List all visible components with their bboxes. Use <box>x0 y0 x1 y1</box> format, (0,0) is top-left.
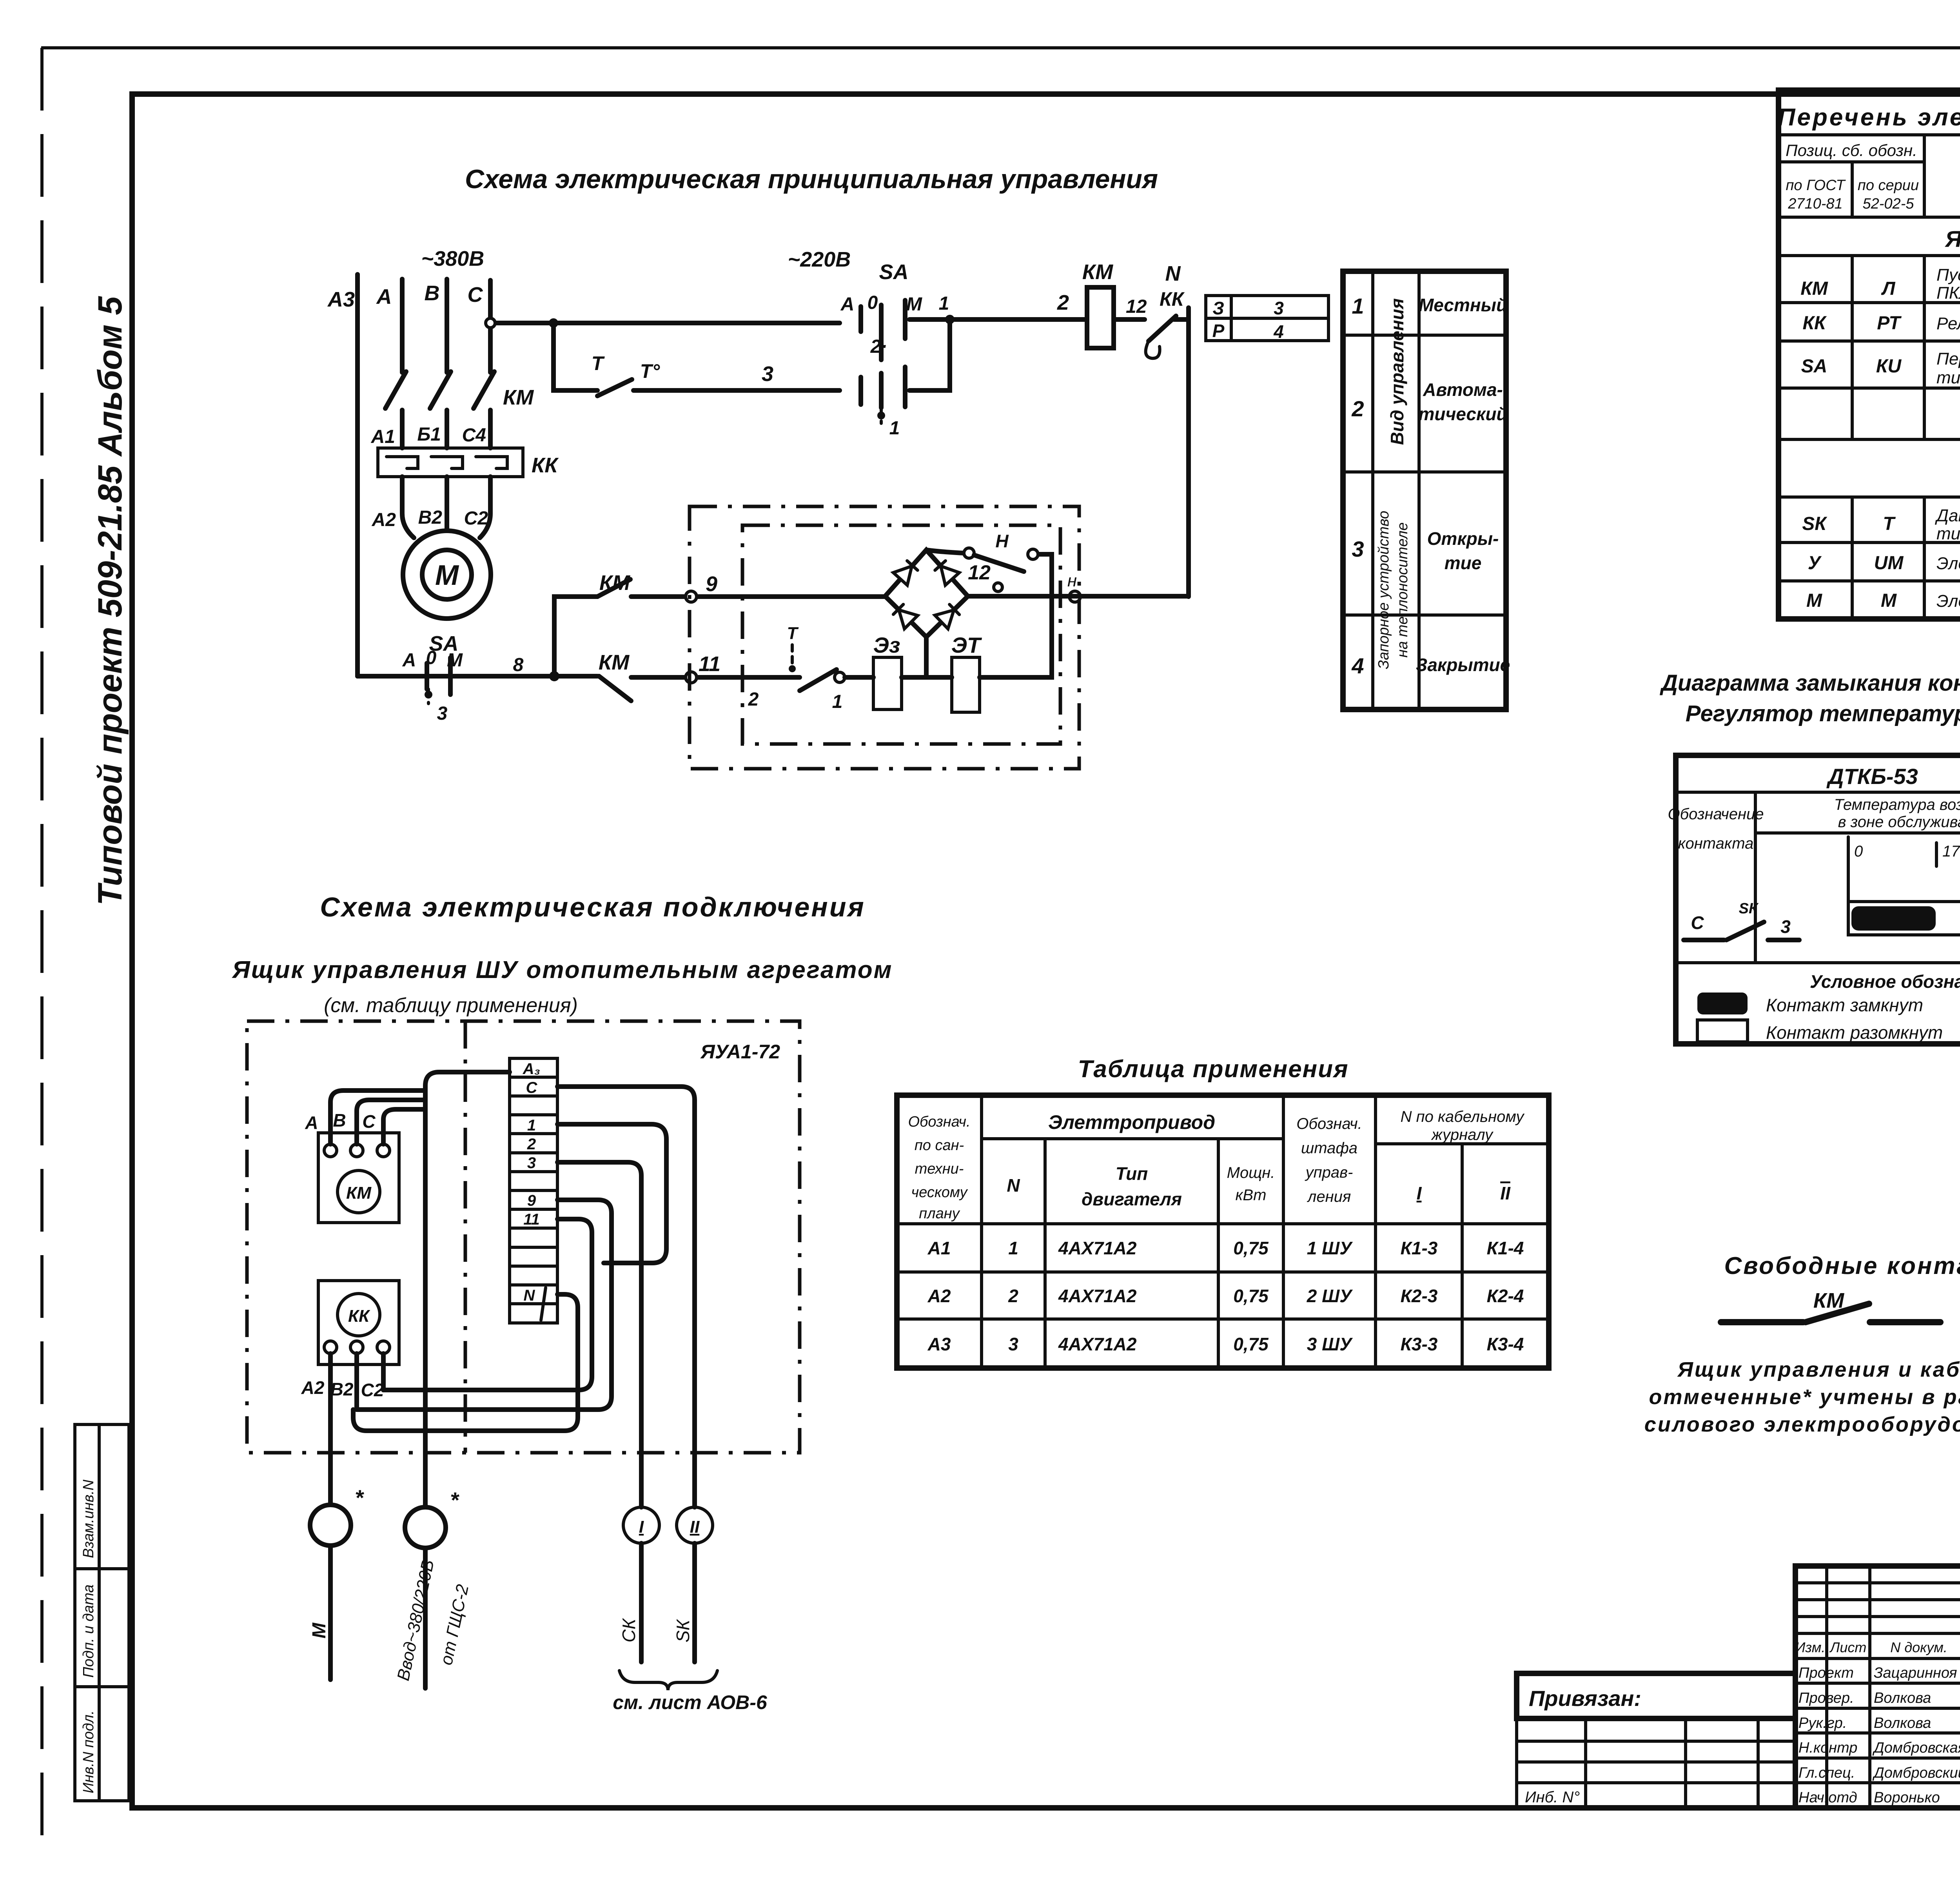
svg-text:тический: тический <box>1418 404 1507 424</box>
SA upper ticks row1 <box>858 307 863 332</box>
trunk wire <box>425 1072 510 1507</box>
svg-text:Инв.N подл.: Инв.N подл. <box>80 1710 97 1793</box>
svg-text:Воронько: Воронько <box>1874 1789 1940 1806</box>
wire bridge top to contact 12 <box>926 550 964 553</box>
svg-text:Датчик камерный биметаллически: Датчик камерный биметаллический <box>1935 506 1960 525</box>
wire phase A <box>400 279 405 448</box>
svg-text:РТ: РТ <box>1877 313 1902 334</box>
svg-text:SК: SК <box>1739 900 1759 917</box>
svg-text:4АХ71А2: 4АХ71А2 <box>1058 1286 1137 1306</box>
svg-text:11: 11 <box>523 1211 540 1228</box>
svg-text:КМ: КМ <box>346 1183 372 1203</box>
junction dot <box>549 671 559 681</box>
svg-text:Типовой проект 509-21.85 Альбо: Типовой проект 509-21.85 Альбом 5 <box>91 296 129 905</box>
svg-text:на теплоносителе: на теплоносителе <box>1394 522 1411 657</box>
svg-text:Обознач.: Обознач. <box>908 1114 970 1130</box>
svg-text:КМ: КМ <box>1082 260 1113 284</box>
svg-text:Тип: Тип <box>1116 1163 1148 1184</box>
svg-text:1: 1 <box>1352 294 1364 318</box>
svg-text:А: А <box>840 294 855 315</box>
enclosure partition <box>464 1021 467 1453</box>
svg-text:3: 3 <box>762 362 773 386</box>
svg-text:2·: 2· <box>870 336 887 357</box>
svg-text:В: В <box>333 1110 346 1130</box>
svg-text:SА: SА <box>879 260 908 284</box>
section header u mekhanizma <box>1779 495 1960 499</box>
svg-text:ческому: ческому <box>911 1184 968 1201</box>
svg-text:N по кабельному: N по кабельному <box>1401 1108 1525 1125</box>
wire to EZ <box>845 675 873 680</box>
svg-text:Обознач.: Обознач. <box>1296 1115 1362 1132</box>
svg-text:Рук.гр.: Рук.гр. <box>1798 1715 1847 1731</box>
svg-text:КМ: КМ <box>1813 1289 1844 1312</box>
element list title <box>1779 133 1960 136</box>
svg-text:Ящик управления и кабели,: Ящик управления и кабели, <box>1677 1358 1960 1381</box>
wire phase C <box>488 280 493 448</box>
svg-text:Взам.инв.N: Взам.инв.N <box>80 1479 97 1558</box>
svg-text:управ-: управ- <box>1305 1164 1353 1181</box>
svg-text:0,75: 0,75 <box>1233 1334 1269 1354</box>
svg-text:3: 3 <box>1274 298 1284 318</box>
svg-text:М: М <box>447 650 463 671</box>
svg-text:Ввод~380/220В: Ввод~380/220В <box>394 1558 438 1683</box>
svg-text:0: 0 <box>867 292 878 313</box>
svg-text:журналу: журналу <box>1431 1126 1494 1143</box>
svg-text:SА: SА <box>1801 356 1828 377</box>
svg-text:Домбровский: Домбровский <box>1872 1765 1960 1781</box>
svg-text:силового электрооборудования.: силового электрооборудования. <box>1644 1413 1960 1436</box>
svg-text:Местный: Местный <box>1419 295 1507 315</box>
svg-text:Изм.: Изм. <box>1795 1639 1826 1655</box>
svg-text:Привязан:: Привязан: <box>1529 1686 1641 1711</box>
riser wire B <box>357 1100 425 1144</box>
wire row N loop <box>353 1294 578 1431</box>
svg-text:А: А <box>305 1112 318 1133</box>
svg-text:UМ: UМ <box>1874 553 1904 573</box>
contactor KM main contact phase A <box>385 372 406 408</box>
contact state band open <box>1848 902 1960 935</box>
svg-text:Подп. и дата: Подп. и дата <box>80 1584 97 1678</box>
node H on enclosure edge <box>1069 591 1080 602</box>
svg-text:КU: КU <box>1876 356 1902 377</box>
svg-text:1: 1 <box>939 293 949 314</box>
svg-text:КМ: КМ <box>599 571 630 595</box>
thermal relay KK break contact <box>1114 317 1145 322</box>
svg-text:0,75: 0,75 <box>1233 1286 1269 1306</box>
svg-text:12: 12 <box>968 561 991 584</box>
svg-text:отмеченные* учтены в разделе: отмеченные* учтены в разделе <box>1649 1385 1960 1409</box>
bridge diode 2 <box>933 559 959 585</box>
body grid <box>1779 256 1960 439</box>
svg-text:Мощн.: Мощн. <box>1227 1164 1275 1181</box>
wire phase B <box>445 279 449 448</box>
temperature scale <box>1848 837 1960 935</box>
svg-text:3 ШУ: 3 ШУ <box>1307 1334 1353 1354</box>
svg-text:У: У <box>1808 553 1822 573</box>
wire KK to motor A <box>402 477 414 538</box>
wire row 9 to KK B2 <box>357 1200 612 1410</box>
svg-text:N докум.: N докум. <box>1890 1639 1947 1655</box>
svg-text:Т: Т <box>1883 514 1896 534</box>
solenoid EZ <box>873 657 902 709</box>
svg-text:Нач.отд: Нач.отд <box>1798 1789 1857 1806</box>
svg-text:А1: А1 <box>927 1238 951 1258</box>
svg-text:З: З <box>1212 298 1224 318</box>
svg-text:Регулятор температуры SК: Регулятор температуры SК <box>1686 701 1960 726</box>
svg-text:Л: Л <box>1881 278 1896 299</box>
svg-text:Волкова: Волкова <box>1874 1690 1931 1706</box>
wire KK C2 riser <box>381 1354 386 1390</box>
svg-text:Диаграмма замыкания контактов: Диаграмма замыкания контактов <box>1659 670 1960 696</box>
svg-text:Р: Р <box>1212 321 1225 341</box>
svg-text:Н.контр: Н.контр <box>1798 1740 1857 1756</box>
svg-text:Т: Т <box>787 624 799 643</box>
svg-text:(см. таблицу применения): (см. таблицу применения) <box>324 994 578 1017</box>
svg-text:К2-3: К2-3 <box>1401 1286 1438 1306</box>
svg-text:9: 9 <box>706 572 717 596</box>
wire branch 9 <box>631 594 885 599</box>
svg-text:2: 2 <box>1057 291 1069 314</box>
svg-text:SК: SК <box>1802 514 1828 534</box>
privyazan box <box>1517 1673 1795 1718</box>
svg-text:4АХ71А2: 4АХ71А2 <box>1058 1334 1137 1354</box>
svg-text:Т°: Т° <box>640 360 661 382</box>
application table frame <box>897 1095 1549 1368</box>
contactor KM main contact phase B <box>430 372 451 408</box>
svg-text:двигателя: двигателя <box>1082 1189 1182 1209</box>
wire row C to circle II <box>557 1087 695 1507</box>
svg-text:II: II <box>690 1517 700 1537</box>
svg-text:КМ: КМ <box>503 386 534 409</box>
svg-text:М: М <box>435 560 459 591</box>
svg-text:Электромагнитный привод типа Э: Электромагнитный привод типа ЭВ-3М <box>1936 554 1960 573</box>
margin stamp: Взам. инв. N <box>75 1424 129 1569</box>
svg-text:*: * <box>450 1488 459 1512</box>
svg-text:8: 8 <box>513 655 524 675</box>
svg-text:~220В: ~220В <box>788 248 851 271</box>
element list table frame <box>1779 90 1960 619</box>
svg-text:0: 0 <box>1854 843 1863 860</box>
svg-text:1: 1 <box>832 691 843 712</box>
svg-text:N: N <box>1165 262 1181 285</box>
svg-text:КК: КК <box>532 454 559 477</box>
svg-text:штафа: штафа <box>1301 1140 1357 1157</box>
svg-text:см. лист АОВ-6: см. лист АОВ-6 <box>613 1691 768 1713</box>
riser wire A <box>330 1091 425 1144</box>
svg-text:Ящик управления ШУ отопительны: Ящик управления ШУ отопительным агрегато… <box>232 956 893 983</box>
svg-text:2: 2 <box>1351 396 1364 421</box>
wire ET right and riser <box>980 554 1052 677</box>
svg-text:*: * <box>355 1485 364 1510</box>
svg-text:1: 1 <box>1008 1238 1018 1258</box>
junction T branch <box>549 318 558 328</box>
svg-text:Условное обозначение: Условное обозначение <box>1810 971 1960 992</box>
svg-text:К2-4: К2-4 <box>1487 1286 1524 1306</box>
svg-text:в зоне обслуживания: в зоне обслуживания <box>1838 813 1960 831</box>
terminal strip <box>510 1058 557 1323</box>
riser wire C <box>383 1109 425 1144</box>
bridge bottom lead <box>924 637 929 677</box>
svg-text:А3: А3 <box>927 1334 951 1354</box>
SA upper ticks row2 <box>858 377 863 405</box>
svg-text:N: N <box>524 1287 535 1304</box>
KK terminals <box>324 1341 337 1354</box>
cable circle II <box>677 1507 713 1543</box>
section header yashchik <box>1779 254 1960 257</box>
privyazan grid <box>1517 1718 1795 1808</box>
wire 9 to N line <box>968 594 1189 599</box>
thermal relay KK device box <box>318 1281 399 1365</box>
svg-text:К3-3: К3-3 <box>1401 1334 1438 1354</box>
svg-text:0: 0 <box>426 648 437 668</box>
svg-text:Контакт замкнут: Контакт замкнут <box>1766 995 1923 1015</box>
svg-text:по сан-: по сан- <box>915 1137 964 1154</box>
table 3-P small <box>1206 296 1328 342</box>
svg-text:2710-81: 2710-81 <box>1788 196 1842 212</box>
SA lower tick A-0 <box>425 663 429 689</box>
cable circle vvod <box>405 1507 446 1548</box>
svg-text:кВт: кВт <box>1236 1187 1267 1204</box>
svg-text:~380В: ~380В <box>421 247 485 270</box>
svg-text:Перечень элементов принципиаль: Перечень элементов принципиальной схемы … <box>1778 104 1960 131</box>
svg-text:Провер.: Провер. <box>1798 1690 1854 1706</box>
svg-text:А: А <box>376 285 392 308</box>
svg-text:А1: А1 <box>371 426 395 447</box>
svg-text:11: 11 <box>699 652 720 676</box>
left grid horizontals <box>1795 1583 1960 1783</box>
svg-text:С4: С4 <box>462 425 486 446</box>
title block frame <box>1795 1566 1960 1808</box>
svg-text:Температура воздуха: Температура воздуха <box>1834 796 1960 813</box>
contactor KM aux contact (branch 11) <box>599 676 631 701</box>
svg-text:Обозначение: Обозначение <box>1668 806 1764 823</box>
junction on phase C <box>486 318 495 328</box>
motor M outer circle <box>403 531 491 619</box>
bridge diode 4 <box>935 603 961 629</box>
svg-text:Волкова: Волкова <box>1874 1715 1931 1731</box>
svg-text:2: 2 <box>748 689 759 710</box>
svg-text:4АХ71А2: 4АХ71А2 <box>1058 1238 1137 1258</box>
solenoid ET <box>952 657 980 712</box>
header grid <box>1779 135 1960 217</box>
svg-text:Автома-: Автома- <box>1423 379 1503 400</box>
svg-text:Пускатель магнитный типа ПМЛ-1: Пускатель магнитный типа ПМЛ-1100+ <box>1936 265 1960 285</box>
svg-text:Инб. N°: Инб. N° <box>1525 1789 1580 1806</box>
svg-text:Ящик упробления ШУ: Ящик упробления ШУ <box>1944 227 1960 252</box>
wire bottom branch 11 left <box>358 674 597 679</box>
inner dash-dot enclosure <box>742 525 1060 744</box>
svg-text:Контакт разомкнут: Контакт разомкнут <box>1766 1022 1943 1043</box>
svg-text:Элеттропривод: Элеттропривод <box>1048 1111 1215 1133</box>
svg-text:А: А <box>402 650 416 671</box>
svg-text:SК: SК <box>673 1619 693 1642</box>
cable circle I <box>623 1507 659 1543</box>
wire row 3 to circle I <box>557 1162 641 1507</box>
node 11 <box>686 672 697 683</box>
svg-text:КК: КК <box>348 1306 370 1326</box>
SA lower tick 0-M <box>448 658 453 695</box>
wire SA to KM coil <box>909 317 1087 322</box>
svg-text:М: М <box>1806 590 1822 611</box>
wire branch 3 <box>633 388 840 393</box>
contactor KM device box <box>318 1133 399 1223</box>
rectifier bridge <box>885 550 968 637</box>
svg-text:КК: КК <box>1802 313 1827 334</box>
svg-text:С2: С2 <box>464 508 488 529</box>
DTKB table frame <box>1676 755 1960 1044</box>
wire N vertical <box>1186 308 1191 597</box>
KK heater element A <box>387 457 418 468</box>
svg-text:типа УП5311-С225, 2 секции: типа УП5311-С225, 2 секции <box>1936 368 1960 387</box>
svg-text:В: В <box>425 281 440 305</box>
svg-text:К1-4: К1-4 <box>1487 1238 1524 1258</box>
margin stamp: Подп. и дата <box>75 1569 129 1687</box>
svg-text:2: 2 <box>1008 1286 1018 1306</box>
svg-text:Схема электрическая принципиал: Схема электрическая принципиальная управ… <box>465 164 1158 194</box>
svg-text:1 ШУ: 1 ШУ <box>1307 1238 1353 1258</box>
svg-text:М: М <box>309 1622 330 1639</box>
body grid 2 <box>1779 497 1960 619</box>
wire row 1 loop <box>557 1124 666 1263</box>
svg-text:9: 9 <box>527 1192 536 1209</box>
svg-text:N: N <box>1007 1175 1020 1196</box>
bridge diode 1 <box>893 559 919 585</box>
svg-text:0,75: 0,75 <box>1233 1238 1269 1258</box>
wire KK to motor B <box>445 477 449 531</box>
KM terminals <box>324 1144 337 1157</box>
svg-text:17°С: 17°С <box>1942 843 1960 860</box>
left grid verticals <box>1827 1566 1960 1808</box>
wire KK to motor C <box>480 477 490 538</box>
svg-text:КМ: КМ <box>599 651 630 674</box>
svg-text:А2: А2 <box>301 1377 325 1398</box>
svg-text:Электродвигатель, ~380В: Электродвигатель, ~380В <box>1936 592 1960 611</box>
svg-text:С2: С2 <box>361 1380 384 1400</box>
control mode table frame <box>1343 271 1506 709</box>
border outer left <box>40 48 44 1838</box>
svg-text:М: М <box>906 294 922 315</box>
svg-text:1: 1 <box>889 418 900 439</box>
svg-text:Гл.спец.: Гл.спец. <box>1798 1765 1855 1781</box>
svg-text:I: I <box>1417 1183 1422 1203</box>
svg-text:2 ШУ: 2 ШУ <box>1307 1286 1353 1306</box>
svg-text:3: 3 <box>1352 537 1364 561</box>
svg-text:2: 2 <box>527 1136 536 1153</box>
svg-text:тие: тие <box>1445 553 1482 573</box>
svg-text:Лист: Лист <box>1829 1639 1867 1655</box>
wire branch 11 <box>631 675 800 680</box>
svg-text:ЭТ: ЭТ <box>951 633 982 657</box>
contactor KM main contact phase C <box>474 372 494 408</box>
svg-text:Т: Т <box>592 352 605 374</box>
svg-text:Схема электрическая подключени: Схема электрическая подключения <box>320 892 865 922</box>
brace <box>619 1671 717 1690</box>
svg-text:4: 4 <box>1351 653 1364 678</box>
svg-text:С: С <box>526 1079 538 1096</box>
svg-text:контакта: контакта <box>1678 835 1754 852</box>
svg-text:Б1: Б1 <box>417 424 441 445</box>
svg-text:ЯУА1-72: ЯУА1-72 <box>700 1041 780 1063</box>
wire junction riser <box>554 597 597 676</box>
svg-text:по ГОСТ: по ГОСТ <box>1786 177 1846 194</box>
outer dash-dot enclosure <box>690 506 1079 769</box>
svg-text:Зацаринноя: Зацаринноя <box>1874 1665 1957 1681</box>
wire 220V top <box>490 321 840 325</box>
sensor T contact on branch 11 <box>791 645 794 664</box>
svg-text:А3: А3 <box>327 288 355 311</box>
svg-text:А₃: А₃ <box>523 1060 540 1078</box>
svg-text:А2: А2 <box>372 510 396 530</box>
svg-text:В2: В2 <box>418 507 443 528</box>
SA shaft tail <box>880 408 883 423</box>
svg-text:плану: плану <box>919 1205 960 1222</box>
wire EZ to ET <box>902 675 952 680</box>
svg-text:СК: СК <box>619 1618 639 1642</box>
svg-text:52-02-5: 52-02-5 <box>1863 196 1915 212</box>
svg-text:Вид управления: Вид управления <box>1387 298 1407 445</box>
svg-text:Домбровская: Домбровская <box>1872 1740 1960 1756</box>
svg-text:ления: ления <box>1307 1188 1351 1205</box>
thermal relay KK heaters box <box>378 448 523 477</box>
contactor KM aux contact (branch 9) <box>597 579 630 597</box>
svg-text:С: С <box>1691 913 1704 933</box>
wire KK B2 riser <box>354 1354 359 1410</box>
free contact KM symbol <box>1721 1304 1940 1322</box>
svg-text:Запорное устройство: Запорное устройство <box>1376 511 1392 669</box>
contact state band closed <box>1851 906 1936 931</box>
svg-text:С: С <box>362 1111 376 1132</box>
node 9 <box>686 591 697 602</box>
KK heater element B <box>431 457 463 468</box>
svg-text:КК: КК <box>1160 288 1185 310</box>
control box enclosure dash-dot <box>247 1021 800 1453</box>
wire A3 vertical <box>355 274 360 676</box>
cable circle M <box>310 1505 351 1546</box>
border outer top <box>41 46 1960 49</box>
wire row 11 to KK C2 <box>383 1219 592 1390</box>
bridge diode 3 <box>892 603 918 629</box>
svg-text:К3-4: К3-4 <box>1487 1334 1524 1354</box>
svg-text:М: М <box>1881 590 1897 611</box>
svg-text:В2: В2 <box>330 1379 354 1399</box>
SA lower shaft dot and 3 <box>427 689 430 704</box>
svg-text:техни-: техни- <box>915 1161 964 1177</box>
svg-text:ПКЛ-1104, кат. ~220В: ПКЛ-1104, кат. ~220В <box>1936 283 1960 303</box>
wire row2 to riser <box>909 319 950 390</box>
svg-text:Закрытие: Закрытие <box>1416 655 1510 675</box>
svg-text:II: II <box>1500 1183 1511 1203</box>
svg-text:Проект: Проект <box>1798 1665 1854 1681</box>
svg-text:ДТКБ-53: ДТКБ-53 <box>1826 764 1918 789</box>
svg-text:3: 3 <box>1780 916 1791 937</box>
KK heater element C <box>476 457 507 468</box>
svg-text:Эз: Эз <box>873 633 900 657</box>
motor M inner circle <box>422 550 472 599</box>
svg-text:КМ: КМ <box>1800 278 1828 299</box>
svg-text:Н: Н <box>995 531 1009 551</box>
svg-text:С: С <box>468 283 483 307</box>
wire KK A2 down to cable M <box>328 1354 333 1505</box>
KM aux contact 12-N blade <box>974 555 1024 572</box>
svg-text:3: 3 <box>437 703 448 724</box>
svg-text:Реле тепловое типа РТЛ-1008,Iн: Реле тепловое типа РТЛ-1008,Iнэ-3,2А <box>1936 314 1960 333</box>
contactor coil KM <box>1087 287 1114 348</box>
svg-text:Переключатель универсальный: Переключатель универсальный <box>1936 349 1960 368</box>
svg-text:1: 1 <box>527 1117 536 1134</box>
svg-text:3: 3 <box>1008 1334 1018 1354</box>
margin stamp: Инв. N подл. <box>75 1687 129 1801</box>
svg-text:3: 3 <box>527 1154 536 1172</box>
